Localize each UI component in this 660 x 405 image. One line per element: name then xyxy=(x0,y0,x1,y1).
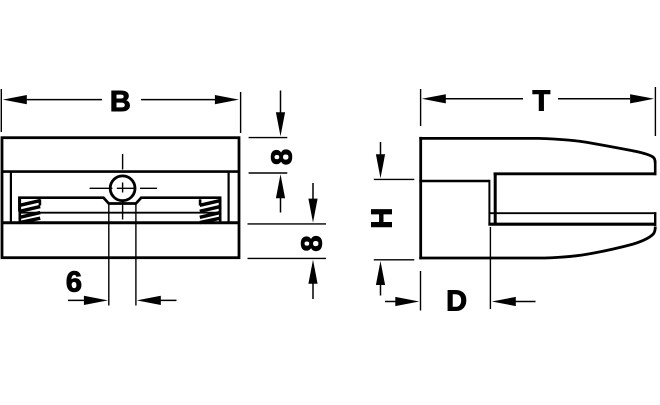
dimension D extension line right xyxy=(489,227,491,309)
dimension 6 right arrow xyxy=(137,296,177,305)
side view upper jaw bottom line xyxy=(494,172,657,175)
dimension T extension line right xyxy=(654,87,656,136)
screw hole circle xyxy=(110,176,135,201)
svg-text:T: T xyxy=(532,86,550,118)
dimension 6 left arrow xyxy=(68,296,108,305)
dimension B right arrow xyxy=(141,95,239,104)
side view lower jaw top line xyxy=(489,212,656,214)
dimension 8 upper extension line bottom xyxy=(249,172,288,174)
svg-text:D: D xyxy=(446,286,467,318)
notch extension line right xyxy=(135,205,137,306)
compression spring left xyxy=(20,199,40,223)
side view step vertical line xyxy=(488,180,490,226)
dimension B extension line right xyxy=(240,92,242,133)
side view upper jaw front edge xyxy=(654,162,657,176)
dimension 8 upper down arrow xyxy=(276,91,285,137)
side view lower jaw front edge xyxy=(654,212,656,226)
side view top edge arc xyxy=(419,138,655,163)
side view slot back wall xyxy=(494,173,497,224)
dimension H extension line top xyxy=(374,178,415,180)
dimension H down arrow xyxy=(376,142,385,178)
front view outer body rectangle xyxy=(2,138,239,258)
side view bottom edge arc xyxy=(419,227,655,259)
svg-text:8: 8 xyxy=(267,149,299,165)
vertical centerline of hole xyxy=(122,154,124,220)
svg-text:8: 8 xyxy=(297,235,329,251)
front view inner wall left xyxy=(10,172,12,223)
dimension T extension line left xyxy=(420,89,422,126)
notch extension line left xyxy=(108,205,110,306)
front view cavity bottom line xyxy=(2,221,239,224)
side view slot bottom thick line xyxy=(488,223,654,226)
dimension 8 upper up arrow xyxy=(276,174,285,212)
front view inner wall right xyxy=(228,172,230,223)
dimension 8 lower extension line top xyxy=(248,223,327,225)
dimension D right arrow xyxy=(492,297,536,306)
svg-text:B: B xyxy=(110,86,131,118)
dimension H up arrow xyxy=(376,261,385,296)
compression spring right xyxy=(200,199,220,223)
svg-text:H: H xyxy=(366,208,398,229)
svg-text:6: 6 xyxy=(66,267,82,299)
dimension T left arrow xyxy=(422,94,523,103)
dimension D left arrow xyxy=(385,297,419,306)
clamping plate top edge with center notch xyxy=(19,198,220,212)
dimension 8 upper extension line top xyxy=(249,137,288,139)
horizontal centerline of hole xyxy=(90,187,157,189)
dimension 8 lower down arrow xyxy=(308,183,317,223)
dimension B left arrow xyxy=(3,95,102,104)
dimension H extension line bottom xyxy=(374,259,415,261)
side view left edge xyxy=(419,137,422,259)
clamping plate bottom line xyxy=(19,212,220,214)
front view cavity top line xyxy=(2,170,239,173)
dimension B extension line left xyxy=(0,89,2,132)
dimension T right arrow xyxy=(558,94,654,103)
dimension D extension line left xyxy=(420,271,422,311)
dimension 8 lower up arrow xyxy=(308,260,317,299)
dimension 8 lower extension line bottom xyxy=(248,257,327,259)
side view step horizontal line xyxy=(419,180,489,183)
